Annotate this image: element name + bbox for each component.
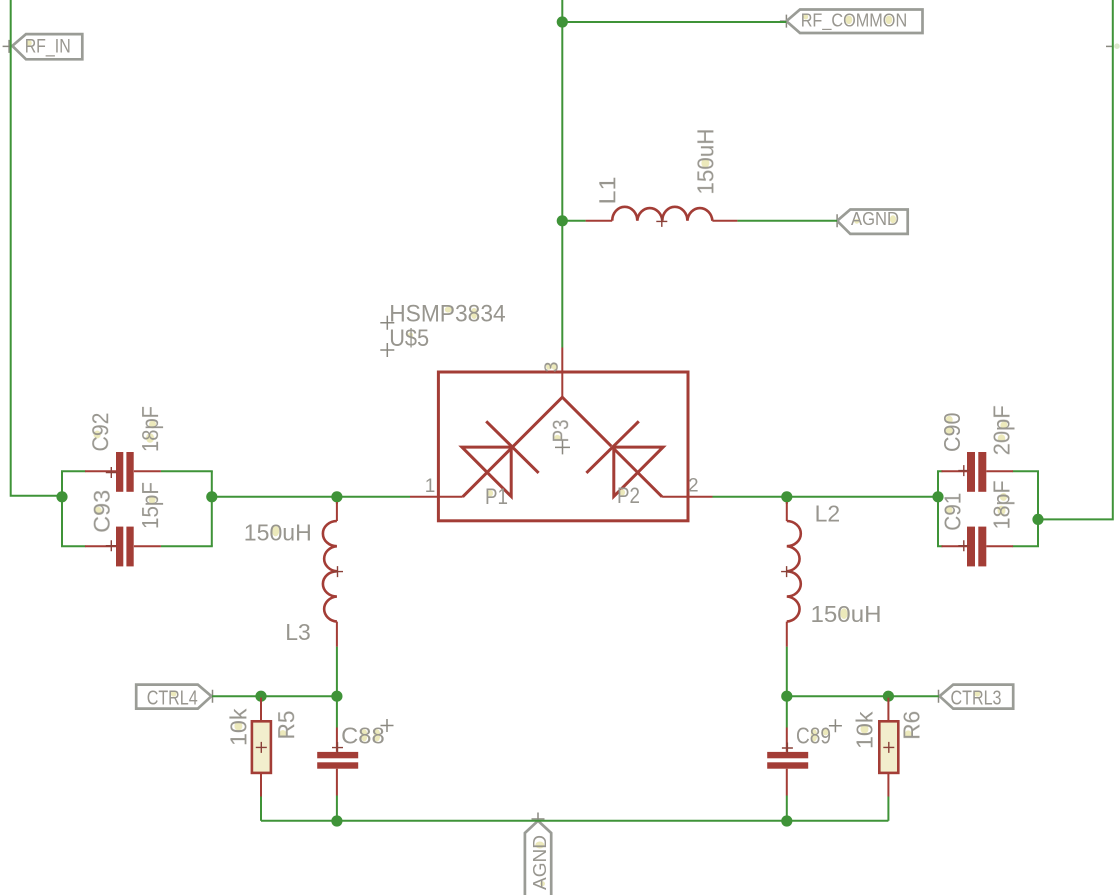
capacitor C90 plates	[967, 452, 975, 492]
svg-text:R5: R5	[273, 711, 299, 740]
svg-text:150uH: 150uH	[244, 520, 312, 546]
junction R5 top	[255, 691, 266, 702]
resistor R6 leads	[887, 698, 889, 797]
inductor L2 leads	[786, 502, 788, 647]
counters P2	[620, 489, 626, 495]
svg-text:3: 3	[542, 362, 563, 373]
wire RF_IN net: left vertical down to C92/C93 node	[11, 0, 62, 496]
node stub right edge	[1114, 43, 1120, 49]
svg-text:150uH: 150uH	[692, 129, 718, 195]
capacitor C91 plates	[967, 527, 975, 567]
junction CTRL4 / C88 node	[331, 691, 342, 702]
svg-text:CTRL4: CTRL4	[147, 687, 198, 709]
cross AGND top tip	[831, 214, 844, 227]
counters RF_COMMON	[803, 14, 808, 20]
cross RF_COMMON tip	[780, 15, 793, 28]
text 20pF C90 (rotated)	[989, 405, 1015, 455]
resistor R5 origin cross	[256, 742, 267, 753]
wire L1 right to AGND flag	[737, 220, 837, 222]
net flag RF_IN	[12, 34, 82, 59]
counters P1	[488, 490, 494, 496]
wire left cap loop top stubs	[61, 470, 213, 472]
wire right cap loop left vertical	[937, 471, 939, 546]
text P3 (rotated)	[548, 419, 573, 442]
counters RF_IN	[27, 40, 32, 45]
svg-text:C92: C92	[87, 413, 113, 452]
text L1 (rotated)	[594, 177, 620, 205]
svg-text:L1: L1	[594, 177, 620, 205]
resistor R6 origin cross	[883, 742, 894, 753]
svg-text:AGND: AGND	[529, 835, 550, 890]
wire left cap loop bottom stubs	[61, 545, 213, 547]
capacitor C90 leads	[942, 470, 1014, 472]
inductor L1 origin cross	[656, 216, 667, 227]
capacitor C88 leads	[336, 728, 338, 796]
wire pin 2 to C90/C91 node	[713, 496, 939, 498]
pin 2 lead of U$5	[662, 496, 712, 498]
svg-text:18pF: 18pF	[137, 406, 163, 452]
text 10k R5 (rotated)	[225, 708, 251, 746]
wire bottom ground rail	[261, 820, 888, 822]
svg-text:P2: P2	[617, 483, 640, 508]
capacitor C91 leads	[942, 545, 1014, 547]
text C91 (rotated)	[940, 493, 966, 531]
diode P2 cathode bar	[586, 421, 638, 473]
capacitor C89 origin cross	[782, 743, 793, 754]
svg-text:C91: C91	[940, 493, 966, 531]
resistor R5 body 10k	[252, 721, 271, 773]
svg-text:10k: 10k	[225, 708, 251, 746]
pin 3 lead of U$5	[561, 348, 563, 398]
svg-text:L2: L2	[815, 501, 841, 527]
capacitor C93 plates	[116, 527, 123, 567]
diode P3 vee branches	[513, 397, 611, 446]
junction RF_IN / C92 node	[56, 491, 67, 502]
wire C88 bottom stub	[336, 796, 338, 822]
junction L3 tap	[331, 491, 342, 502]
svg-text:HSMP3834: HSMP3834	[389, 301, 506, 328]
text R6 (rotated)	[899, 711, 925, 740]
capacitor C88 origin cross	[332, 742, 343, 753]
text C90 (rotated)	[939, 413, 965, 453]
text R5 (rotated)	[273, 711, 299, 740]
svg-text:RF_COMMON: RF_COMMON	[801, 9, 908, 31]
wire R5 bottom stub	[260, 797, 262, 821]
pin P3 origin cross	[555, 440, 570, 454]
inductor L3 origin cross	[332, 566, 343, 577]
text 150uH L1 (rotated)	[692, 129, 718, 195]
inductor L3 leads	[336, 502, 338, 647]
text pin number 3 (rotated)	[546, 363, 552, 370]
net flag AGND top	[837, 210, 908, 234]
wire C89 top stub	[786, 696, 788, 727]
diode P1 anode axis	[463, 447, 513, 497]
wire junction to RF_COMMON flag	[562, 21, 786, 23]
capacitor C93 leads	[85, 545, 161, 547]
junction C90 right node	[1032, 514, 1043, 525]
text AGND bottom (rotated)	[529, 835, 550, 890]
counters C88	[361, 729, 368, 741]
text C93 (rotated)	[89, 490, 115, 533]
diode P2 anode axis	[612, 447, 662, 497]
net flag RF_COMMON	[786, 10, 922, 34]
svg-text:R6: R6	[899, 711, 925, 740]
counters CTRL4	[171, 691, 177, 697]
svg-text:1: 1	[425, 476, 436, 497]
junction L1 tap	[557, 215, 568, 226]
junction C88 ground	[331, 815, 342, 826]
svg-text:20pF: 20pF	[989, 405, 1015, 455]
svg-text:C90: C90	[939, 413, 965, 453]
text C92 (rotated)	[87, 413, 113, 452]
wire R6 bottom stub	[887, 797, 889, 821]
junction R6 top	[883, 691, 894, 702]
junction RF_COMMON tap	[557, 16, 568, 27]
net flag AGND bottom	[525, 821, 551, 895]
wire L3 bottom to CTRL4 node	[336, 647, 338, 697]
diode P1 cathode bar	[486, 421, 538, 473]
counters 150uH L2	[840, 608, 847, 619]
svg-text:C88: C88	[341, 722, 385, 748]
cross RF_IN tip	[3, 40, 16, 53]
junction C92 right node	[206, 491, 217, 502]
capacitor C89 leads	[786, 728, 788, 796]
svg-text:150uH: 150uH	[811, 601, 882, 627]
junction C90 left node	[932, 491, 943, 502]
capacitor C89 plates	[767, 752, 808, 758]
wire right cap loop top stubs	[937, 470, 1039, 472]
resistor R6 body 10k	[879, 721, 898, 773]
text 18pF C92 (rotated)	[137, 406, 163, 452]
wire L1 left stub	[562, 220, 585, 222]
text 10k R6 (rotated)	[852, 711, 878, 749]
wire C88 top stub	[336, 696, 338, 727]
svg-text:15pF: 15pF	[137, 482, 163, 529]
counters HSMP3834	[445, 307, 452, 313]
inductor L1 leads	[586, 220, 738, 222]
wire right node to right edge riser	[1038, 0, 1113, 519]
wire from C92/C93 node to pin 1	[212, 496, 410, 498]
net flag CTRL3	[940, 685, 1014, 709]
counters C89	[811, 729, 818, 741]
svg-text:AGND: AGND	[851, 208, 899, 229]
junction C89 ground	[781, 815, 792, 826]
svg-text:2: 2	[688, 476, 699, 497]
resistor R5 leads	[260, 698, 262, 797]
wire L2 top stub	[786, 497, 788, 504]
wire left cap loop left vertical	[61, 471, 63, 546]
svg-text:10k: 10k	[852, 711, 878, 749]
svg-text:C93: C93	[89, 490, 115, 533]
counters U$5	[408, 332, 413, 337]
text 15pF C93 (rotated)	[137, 482, 163, 529]
cross HSMP3834 text origin	[380, 316, 394, 330]
capacitor C92 leads	[85, 470, 161, 472]
svg-text:U$5: U$5	[389, 325, 429, 352]
svg-text:P1: P1	[485, 484, 508, 509]
cross AGND bottom tip	[532, 813, 545, 826]
svg-text:18pF: 18pF	[989, 480, 1015, 529]
cross C89 text origin	[829, 719, 842, 732]
capacitor C88 plates	[317, 752, 358, 758]
wire L2 bottom to CTRL3 node	[786, 647, 788, 697]
svg-text:RF_IN: RF_IN	[25, 36, 71, 58]
wire C89 bottom stub	[786, 796, 788, 822]
wire left cap loop right vertical	[211, 471, 213, 546]
svg-text:C89: C89	[796, 722, 831, 748]
counters CTRL3	[975, 691, 981, 697]
capacitor C93 origin cross	[106, 540, 117, 551]
wire CTRL4 flag to L3 node	[212, 695, 337, 697]
net flag CTRL4	[136, 685, 211, 709]
counters AGND top	[854, 219, 859, 224]
wire CTRL3 node to flag	[787, 695, 939, 697]
capacitor C92 origin cross	[106, 467, 117, 478]
junction L2 tap	[781, 491, 792, 502]
diode P1 triangle	[462, 447, 511, 496]
wire RF_COMMON vertical down to pin 3	[561, 0, 563, 348]
counters 150uH L3	[272, 526, 279, 537]
cross CTRL4 tip	[206, 690, 219, 703]
inductor L2 origin cross	[781, 566, 792, 577]
svg-text:L3: L3	[285, 619, 311, 645]
cross CTRL3 tip	[932, 690, 945, 703]
wire L3 top stub	[336, 497, 338, 504]
svg-text:CTRL3: CTRL3	[951, 687, 1002, 709]
pin 1 lead of U$5	[410, 496, 463, 498]
capacitor C91 origin cross	[958, 540, 969, 551]
wire right cap loop bottom stubs	[937, 545, 1039, 547]
op U$5 HSMP3834 part box	[438, 372, 688, 521]
inductor L2 coil 150uH	[787, 521, 801, 622]
cross right edge stub	[1106, 45, 1113, 47]
junction L2 / C89 node	[781, 691, 792, 702]
text 18pF C91 (rotated)	[989, 480, 1015, 529]
capacitor C90 origin cross	[958, 465, 969, 476]
svg-text:P3: P3	[548, 419, 573, 442]
cross C88 text origin	[381, 719, 394, 732]
inductor L3 coil 150uH	[323, 521, 337, 622]
wire right cap loop right vertical	[1037, 471, 1039, 546]
cross U$5 text origin	[380, 343, 394, 357]
inductor L1 coil 150uH	[612, 207, 712, 221]
diode P2 triangle	[614, 447, 663, 496]
capacitor C92 plates	[116, 452, 123, 492]
